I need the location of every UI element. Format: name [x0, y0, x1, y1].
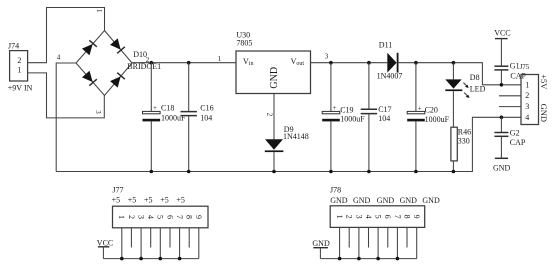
svg-text:GND: GND — [269, 67, 280, 89]
wire J74 pin1 to bridge bottom — [28, 73, 105, 118]
svg-text:1: 1 — [525, 80, 529, 89]
wire J75 pin2 stub — [499, 95, 521, 97]
node J78 pin5 — [376, 257, 380, 261]
svg-text:G1J75: G1J75 — [510, 61, 530, 71]
J78 pin6 wire — [387, 227, 389, 247]
svg-text:VCC: VCC — [494, 28, 510, 37]
svg-text:+5: +5 — [128, 196, 137, 205]
svg-text:+5V: +5V — [539, 74, 549, 90]
svg-text:1000uF: 1000uF — [425, 115, 450, 124]
svg-text:1N4148: 1N4148 — [283, 132, 309, 141]
svg-text:+5: +5 — [112, 196, 121, 205]
svg-text:+: + — [333, 104, 337, 112]
connector J74 — [8, 42, 33, 93]
node C20 top — [414, 61, 418, 65]
svg-text:+: + — [153, 104, 157, 112]
J78 pin8 wire — [406, 227, 408, 247]
J77 pin7 wire — [179, 228, 181, 259]
J78 pin3 wire — [358, 227, 360, 258]
connector J75 — [521, 75, 539, 125]
svg-text:4: 4 — [57, 53, 61, 61]
svg-text:3: 3 — [94, 110, 102, 114]
svg-text:D8: D8 — [470, 73, 480, 82]
svg-text:C19: C19 — [340, 105, 353, 114]
VCC power symbol (J77) — [97, 238, 113, 258]
svg-text:6: 6 — [383, 215, 392, 219]
ground rail (bottom) — [56, 117, 521, 171]
diode D9 — [265, 125, 309, 171]
svg-text:3: 3 — [325, 53, 329, 61]
svg-text:CAP: CAP — [510, 72, 526, 81]
svg-text:+9V IN: +9V IN — [8, 84, 33, 93]
node J77 pin5 — [159, 257, 163, 261]
J77 pin8 wire — [188, 228, 190, 248]
node J78 pin3 — [357, 257, 361, 261]
node J77 pin7 — [178, 257, 182, 261]
svg-text:1N4007: 1N4007 — [377, 72, 403, 81]
svg-text:GND: GND — [539, 104, 549, 122]
ground symbol (below G2) — [493, 158, 511, 172]
resistor R46 — [451, 127, 471, 161]
J77 pin4 wire — [150, 228, 152, 248]
bridge rectifier D10 body — [76, 31, 132, 96]
ground symbol (J78) — [312, 239, 330, 258]
svg-text:GND: GND — [493, 163, 511, 172]
svg-text:+5: +5 — [176, 196, 185, 205]
LED D8 — [445, 63, 485, 98]
svg-text:4: 4 — [146, 215, 155, 219]
svg-text:C20: C20 — [425, 106, 438, 115]
node D9 bottom — [272, 170, 276, 174]
node J78 pin1 — [338, 257, 342, 261]
capacitor G1 — [494, 61, 529, 84]
svg-text:7805: 7805 — [236, 38, 252, 47]
svg-text:330: 330 — [458, 136, 470, 145]
svg-text:CAP: CAP — [510, 138, 526, 147]
J78 pin7 wire — [396, 227, 398, 258]
svg-text:R46: R46 — [458, 127, 471, 136]
svg-text:D11: D11 — [379, 41, 392, 50]
svg-text:104: 104 — [200, 113, 212, 122]
J77 pin3 wire — [140, 228, 142, 259]
svg-text:+: + — [418, 104, 422, 112]
node J77 pin1 — [120, 257, 124, 261]
wire D11 cathode to VCC corner — [398, 63, 521, 85]
J77 pin5 wire — [159, 228, 161, 259]
svg-text:3: 3 — [137, 215, 146, 219]
bridge diode top-left — [82, 40, 97, 55]
op-amp U30 regulator 7805 — [236, 30, 311, 93]
svg-text:3: 3 — [525, 102, 529, 111]
svg-text:G2: G2 — [510, 128, 520, 137]
svg-text:BRIDGE1: BRIDGE1 — [127, 62, 161, 71]
wire J75 pin3 stub — [499, 106, 521, 108]
diode D11 — [377, 41, 403, 81]
wire bridge left vertex to ground rail — [56, 63, 76, 172]
node D8 top — [452, 61, 456, 65]
svg-text:4: 4 — [364, 215, 373, 219]
svg-text:2: 2 — [127, 215, 136, 219]
VCC power symbol (top right) — [494, 28, 510, 66]
node J77 pin3 — [139, 257, 143, 261]
wire LED cathode to R46 — [452, 91, 454, 127]
svg-text:2: 2 — [17, 56, 21, 65]
J77 pin1 wire — [121, 228, 123, 259]
node C17 top — [367, 61, 371, 65]
svg-text:2: 2 — [345, 215, 354, 219]
svg-text:1: 1 — [95, 9, 103, 13]
capacitor C20 — [407, 63, 449, 172]
net labels GND row — [330, 196, 440, 205]
capacitor C17 — [361, 63, 392, 172]
capacitor G2 — [494, 117, 526, 158]
svg-text:1: 1 — [335, 215, 344, 219]
svg-text:1: 1 — [218, 55, 222, 63]
svg-text:C18: C18 — [161, 104, 174, 113]
svg-text:+5: +5 — [144, 196, 153, 205]
svg-text:GND: GND — [312, 239, 330, 248]
node J78 pin7 — [396, 257, 400, 261]
svg-text:104: 104 — [378, 114, 390, 123]
connector J78 — [330, 186, 425, 228]
svg-text:7: 7 — [175, 215, 184, 219]
bridge diode bottom-right — [110, 73, 125, 88]
svg-text:2: 2 — [525, 91, 529, 100]
J78 pin4 wire — [368, 227, 370, 247]
svg-text:VCC: VCC — [97, 238, 113, 247]
svg-text:LED: LED — [470, 84, 486, 93]
svg-text:3: 3 — [354, 215, 363, 219]
svg-text:1: 1 — [17, 66, 21, 75]
wire bridge right vertex to U30 Vin — [132, 62, 236, 64]
J78 pin numbers (rotated) — [335, 215, 421, 219]
svg-text:8: 8 — [402, 215, 411, 219]
capacitor C16 — [181, 63, 214, 172]
wire J78 GND rail — [320, 258, 416, 260]
J77 pin9 wire — [198, 228, 200, 259]
capacitor C18 — [143, 63, 187, 172]
svg-text:1000uF: 1000uF — [340, 114, 365, 123]
J78 pin2 wire — [348, 227, 350, 247]
wire U30 GND pin down — [273, 94, 275, 140]
svg-text:J74: J74 — [8, 42, 19, 51]
svg-text:J78: J78 — [330, 186, 341, 195]
svg-text:C17: C17 — [378, 105, 391, 114]
node C19 top — [329, 61, 333, 65]
svg-text:J77: J77 — [112, 186, 123, 195]
svg-text:+5: +5 — [160, 196, 169, 205]
J78 pin9 wire — [416, 227, 418, 258]
node J75 pin1 — [500, 83, 504, 87]
node C19 bottom — [329, 170, 333, 174]
bridge diode bottom-left — [82, 71, 97, 86]
wire J74 pin2 to bridge top — [28, 8, 105, 63]
wire J77 VCC rail — [103, 258, 198, 260]
capacitor C19 — [322, 63, 365, 172]
svg-text:GND: GND — [377, 196, 395, 205]
svg-text:Vout: Vout — [291, 57, 305, 67]
svg-text:C16: C16 — [200, 104, 213, 113]
node C16 bottom — [187, 170, 191, 174]
wire R46 to ground rail — [452, 161, 454, 172]
svg-text:5: 5 — [156, 215, 165, 219]
svg-text:GND: GND — [422, 196, 440, 205]
svg-text:1000uF: 1000uF — [161, 113, 186, 122]
node C16 top — [187, 61, 191, 65]
svg-text:GND: GND — [353, 196, 371, 205]
J77 pin2 wire — [130, 228, 132, 248]
svg-text:7: 7 — [393, 215, 402, 219]
J77 pin6 wire — [169, 228, 171, 248]
J78 pin5 wire — [377, 227, 379, 258]
J78 pin1 wire — [339, 227, 341, 258]
svg-text:1: 1 — [117, 215, 126, 219]
svg-text:6: 6 — [165, 215, 174, 219]
J77 pin numbers (rotated) — [117, 215, 203, 219]
node C17 bottom — [367, 170, 371, 174]
node R46 bottom — [452, 170, 456, 174]
bridge diode top-right — [110, 38, 125, 53]
svg-text:2: 2 — [265, 113, 273, 117]
svg-text:GND: GND — [330, 196, 348, 205]
svg-text:9: 9 — [412, 215, 421, 219]
wire U30 Vout to D11 — [311, 62, 388, 64]
node C18 top — [150, 61, 154, 65]
net labels +5 row — [112, 196, 185, 205]
svg-text:Vin: Vin — [243, 57, 253, 67]
svg-text:9: 9 — [194, 215, 203, 219]
svg-text:GND: GND — [400, 196, 418, 205]
node J75 pin4 — [500, 116, 504, 120]
svg-text:8: 8 — [185, 215, 194, 219]
connector J77 — [112, 186, 208, 228]
node C18 bottom — [150, 170, 154, 174]
svg-text:5: 5 — [374, 215, 383, 219]
svg-text:4: 4 — [525, 113, 529, 122]
node C20 bottom — [414, 170, 418, 174]
